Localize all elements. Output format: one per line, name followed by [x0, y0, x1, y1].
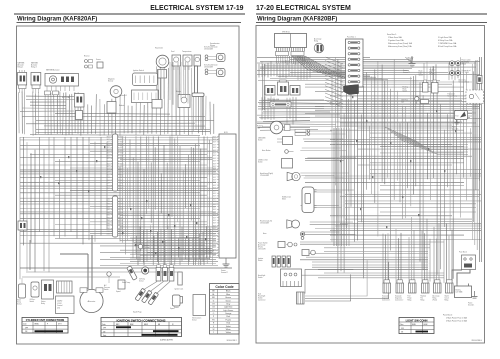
svg-text:BK/Y: BK/Y [213, 153, 216, 155]
svg-text:BK/Y: BK/Y [213, 244, 216, 246]
svg-text:LIGHT SW CONN: LIGHT SW CONN [406, 318, 428, 322]
svg-text:Relay: Relay [421, 299, 425, 301]
switch: brake light switch plug [419, 70, 429, 93]
svg-text:BK/Y: BK/Y [107, 150, 110, 152]
svg-text:W/BK: W/BK [106, 231, 110, 233]
component: regulator/rectifier [108, 77, 122, 97]
svg-text:BK/Y: BK/Y [213, 180, 216, 182]
svg-text:Fuse Box 2 :: Fuse Box 2 : [443, 315, 454, 317]
svg-text:BK/Y: BK/Y [213, 158, 216, 160]
svg-text:Red: Red [226, 323, 229, 325]
component: dark harness wrap below fuse box 1 [344, 85, 359, 95]
svg-text:BK/Y: BK/Y [107, 166, 110, 168]
wire bundle: left page middle verticals dense [120, 136, 212, 265]
svg-text:Semi-Sealed beam: Semi-Sealed beam [204, 65, 218, 67]
svg-text:ON: ON [401, 332, 403, 334]
svg-text:GY/Y: GY/Y [58, 324, 62, 326]
component: ignition coils trio [156, 265, 183, 291]
wire: left edge vertical bus pair right page [263, 64, 265, 110]
svg-text:BK/Y: BK/Y [213, 177, 216, 179]
label: right page drawing number [471, 340, 482, 342]
component: alternator [80, 288, 103, 313]
svg-text:BK/Y: BK/Y [213, 166, 216, 168]
ground: frame ground 3 [452, 120, 460, 130]
svg-text:6 Relay Fuse 20A: 6 Relay Fuse 20A [438, 39, 453, 42]
svg-text:Pink: Pink [226, 316, 230, 318]
svg-text:BK/Y: BK/Y [107, 147, 110, 149]
table: ignition switch connections [101, 318, 182, 338]
switch: 2WD/4WD select switch [258, 137, 293, 145]
svg-text:BK/Y: BK/Y [107, 155, 110, 157]
svg-text:2 Main Power Fuse 2 30A: 2 Main Power Fuse 2 30A [446, 320, 467, 323]
svg-text:Alternator: Alternator [88, 300, 96, 303]
wire bundle: left page upper horizontal jogs [20, 96, 214, 135]
svg-text:BK/Y: BK/Y [213, 188, 216, 190]
component: VFB fuse 40A flat box [270, 102, 291, 107]
component: fuse box 2 [459, 252, 476, 270]
svg-text:Color: Color [400, 324, 404, 326]
svg-text:BK/Y: BK/Y [107, 183, 110, 185]
svg-text:OFF: OFF [25, 327, 28, 329]
svg-text:Speed: Speed [170, 308, 175, 310]
ground: engine ground circle [138, 244, 149, 249]
svg-text:White: White [226, 328, 231, 331]
connector strip: junction box connector B [106, 196, 123, 237]
switch: 2/4WD LOCK switch [258, 159, 293, 169]
junction connector blobs left page upper [40, 146, 105, 192]
svg-text:Fuse Box 1 :: Fuse Box 1 : [387, 34, 398, 36]
svg-text:W/BK: W/BK [106, 228, 110, 230]
svg-text:BK/Y: BK/Y [107, 139, 110, 141]
svg-text:Speed: Speed [116, 291, 121, 293]
wire: right page far-right vertical bus [472, 57, 481, 262]
svg-text:BR/Y: BR/Y [116, 324, 120, 326]
svg-text:1 Main Power Fuse 1 30A: 1 Main Power Fuse 1 30A [446, 317, 467, 320]
svg-text:BK/Y: BK/Y [213, 139, 216, 141]
svg-text:Relay: Relay [408, 299, 412, 301]
svg-text:W/BK: W/BK [106, 234, 110, 236]
svg-text:2WD Fuse: 2WD Fuse [401, 100, 408, 102]
svg-text:BK/Y: BK/Y [107, 185, 110, 187]
svg-text:Wiring Diagram (KAF820AF): Wiring Diagram (KAF820AF) [17, 16, 97, 22]
svg-text:Kawasaki: Kawasaki [382, 295, 389, 297]
svg-text:Ignition Switch: Ignition Switch [133, 69, 144, 72]
svg-text:Light Green: Light Green [223, 309, 233, 312]
svg-text:BK/Y: BK/Y [120, 136, 123, 138]
sensor: water temperature sensor slanted plug [122, 266, 137, 284]
svg-text:BK/Y: BK/Y [213, 207, 216, 209]
left diagram frame [17, 26, 240, 344]
wire bundle: staircase diagonals [385, 127, 468, 155]
connector/relay: Radiator Fan Relay [421, 280, 430, 302]
junction connector blobs left page [122, 200, 206, 254]
svg-text:BK/Y: BK/Y [213, 223, 216, 225]
wire: alternator feed lines [30, 235, 92, 289]
svg-text:Pump: Pump [408, 297, 412, 299]
wire: battery cables [452, 262, 470, 284]
right page title underline [256, 21, 487, 23]
svg-text:Fan: Fan [421, 297, 424, 299]
svg-text:Relay: Relay [314, 40, 318, 42]
label: fuse box 1 legend column 1 [387, 34, 413, 48]
svg-text:BK/Y: BK/Y [120, 158, 123, 160]
connector/relay: Kawasaki Diagnostic Connector 2 [395, 280, 404, 302]
component: KFB/IMB shift actuator small [152, 100, 162, 109]
ground: frame ground 2 fan-in wires [405, 57, 413, 64]
svg-text:Color Code: Color Code [215, 285, 233, 289]
left page header rule [14, 13, 245, 15]
left page title underline [17, 21, 242, 23]
unit: VFB ECU box [275, 31, 307, 55]
svg-text:Relay: Relay [445, 299, 449, 301]
svg-text:BK/Y: BK/Y [213, 252, 216, 254]
connector strip: junction box connector A [107, 134, 124, 191]
wire bundle: right page long cross horizontals upper [257, 101, 480, 127]
svg-text:BK/Y: BK/Y [107, 172, 110, 174]
svg-text:Engine: Engine [145, 245, 150, 247]
svg-text:Fan: Fan [430, 72, 433, 74]
relay: accessory relay box 3 [290, 86, 300, 96]
svg-text:12V 120W: 12V 120W [462, 72, 470, 74]
svg-text:Sensor: Sensor [210, 45, 216, 47]
relay: accessory relay box 1 [265, 86, 275, 96]
svg-text:BK/Y: BK/Y [107, 164, 110, 166]
svg-text:BK/Y: BK/Y [213, 171, 216, 173]
svg-text:BK/Y: BK/Y [213, 228, 216, 230]
svg-text:BK/Y: BK/Y [213, 150, 216, 152]
svg-text:Fuel Level: Fuel Level [448, 94, 456, 96]
svg-text:BK/Y: BK/Y [213, 185, 216, 187]
table: color code [210, 284, 240, 335]
connector: accessory terminal rear [459, 76, 483, 84]
svg-text:BK/Y: BK/Y [213, 255, 216, 257]
svg-text:BL: BL [212, 294, 214, 296]
svg-text:OFF: OFF [103, 328, 106, 330]
svg-text:Wiring Diagram (KAF820BF): Wiring Diagram (KAF820BF) [257, 16, 337, 22]
connector/relay: Fuel Pump Relay [408, 280, 417, 302]
connector: actuator sub-connectors row [45, 91, 59, 95]
unit: 2/4WD LOCK Control Unit [56, 296, 75, 314]
svg-text:BK/Y: BK/Y [213, 242, 216, 244]
connector: sub headlight switch connector [258, 292, 304, 304]
svg-text:BK/Y: BK/Y [213, 250, 216, 252]
wire bundle: left page lower horizontal runs [130, 238, 218, 259]
meter: indicator lamp [194, 55, 201, 66]
ground: frame ground 1 [468, 291, 478, 306]
svg-text:12V 40/40W: 12V 40/40W [204, 49, 213, 51]
unit: vehicle-down sensor [192, 295, 206, 322]
svg-text:2/4WD LOCK: 2/4WD LOCK [258, 159, 269, 161]
component: handlebar junction bar [192, 93, 204, 96]
meter: fuel gauge [171, 51, 181, 70]
svg-text:BR/BL: BR/BL [35, 324, 40, 326]
svg-text:BK/Y: BK/Y [120, 183, 123, 185]
component: connector F-1 flat box [119, 90, 159, 103]
component: power switch accessory front [258, 241, 297, 250]
svg-text:Hourmeter: Hourmeter [155, 46, 163, 49]
svg-text:Black: Black [226, 291, 231, 293]
wire bundle: right page main mesh verticals [332, 57, 480, 278]
svg-text:BK/Y: BK/Y [120, 177, 123, 179]
svg-text:Violet: Violet [226, 325, 231, 328]
svg-text:Horn: Horn [263, 233, 267, 235]
svg-text:Sensor: Sensor [108, 79, 114, 82]
svg-text:BK/Y: BK/Y [120, 172, 123, 174]
svg-text:12V 40/40W: 12V 40/40W [260, 222, 269, 224]
component: 2WD fuse small [401, 100, 429, 104]
sensor: knock sensor [174, 297, 183, 310]
svg-text:Relay: Relay [433, 297, 437, 299]
svg-text:1 Main Fuse 30A: 1 Main Fuse 30A [388, 36, 402, 39]
svg-text:W/BK: W/BK [106, 204, 110, 206]
svg-text:BK/BL: BK/BL [412, 324, 416, 326]
svg-text:BK/Y: BK/Y [213, 142, 216, 144]
label: left page drawing number [227, 340, 238, 342]
svg-text:3 Accessory Fuse (Front) 10A: 3 Accessory Fuse (Front) 10A [388, 42, 413, 45]
svg-text:Vehicle-Down: Vehicle-Down [192, 318, 201, 320]
component: radiator fan motor [257, 121, 290, 134]
relay: KAF/IMB Actuator Relay 2 [31, 62, 41, 94]
svg-text:BK/Y: BK/Y [213, 169, 216, 171]
svg-text:W/BK: W/BK [106, 209, 110, 211]
svg-text:Fan: Fan [257, 128, 260, 130]
svg-text:VFB ECU: VFB ECU [282, 31, 290, 33]
svg-text:BK/Y: BK/Y [213, 239, 216, 241]
unit: fuel pump box [455, 111, 468, 120]
svg-text:W/BK: W/BK [106, 220, 110, 222]
svg-text:WG14011BE 4: WG14011BE 4 [471, 340, 482, 342]
wire bundle: right page bottom vertical drops [383, 217, 452, 284]
component: power switch accessory rear socket row 1 [450, 58, 471, 65]
sensor: small sensor box x97 [96, 58, 103, 68]
svg-text:BK/Y: BK/Y [120, 161, 123, 163]
relay: accessory relay [314, 37, 324, 53]
svg-text:BL/BK: BL/BK [424, 324, 428, 326]
svg-text:W/BK: W/BK [106, 207, 110, 209]
sensor: vehicle speed sensor [170, 295, 180, 310]
svg-text:Gray: Gray [226, 302, 230, 305]
table: lighting connections right page [399, 318, 434, 334]
svg-text:BK/Y: BK/Y [213, 155, 216, 157]
svg-text:W/BK: W/BK [106, 223, 110, 225]
wire bundle: upper-left box feeds [257, 96, 340, 130]
svg-text:Oil/Temp: Oil/Temp [139, 279, 145, 281]
svg-text:OFF: OFF [401, 328, 404, 330]
svg-text:W/BK: W/BK [106, 215, 110, 217]
component: starter motor box [176, 90, 190, 108]
svg-text:BK/Y: BK/Y [213, 217, 216, 219]
unit: head light switch box [258, 269, 302, 287]
sensor: crankshaft sensor dark [139, 267, 149, 283]
switch: horn button [262, 149, 294, 153]
svg-text:Fuse Box 2: Fuse Box 2 [459, 252, 467, 254]
label: speedometer sensor text [210, 42, 220, 47]
svg-text:W/BK: W/BK [106, 201, 110, 203]
svg-text:W/BK: W/BK [106, 212, 110, 214]
svg-text:Ground 2: Ground 2 [221, 272, 228, 274]
svg-text:(KAF820 ADF8F): (KAF820 ADF8F) [160, 339, 173, 342]
svg-text:BK/Y: BK/Y [120, 155, 123, 157]
svg-text:WG14011BF 1: WG14011BF 1 [227, 340, 238, 342]
wire bundle: ECU fanout and upper-left verticals [259, 56, 388, 80]
right page header rule [256, 13, 487, 15]
switch: radiator fan breaker plug [430, 69, 439, 94]
svg-text:BK/Y: BK/Y [213, 234, 216, 236]
component: accessory socket assembly 2 [302, 250, 315, 256]
component: B+/C LOAD actuator box [62, 94, 84, 108]
label: fuse box 1 legend column 2 [438, 36, 457, 48]
svg-text:BK/Y: BK/Y [120, 174, 123, 176]
svg-text:7 2WD/4WD Fuse 10A: 7 2WD/4WD Fuse 10A [438, 42, 457, 45]
svg-text:Yellow: Yellow [225, 332, 231, 334]
svg-text:BR/W: BR/W [144, 324, 149, 326]
relay: VFB main relay box 2 [278, 80, 289, 95]
right diagram frame [256, 26, 485, 344]
component: battery 12V 28Ah [455, 284, 472, 298]
svg-text:BK/Y: BK/Y [213, 247, 216, 249]
connector: ignition switch connector bars [258, 256, 290, 267]
junction connector blobs right page [340, 96, 456, 228]
sensor: water temperature sensor [17, 278, 26, 306]
svg-text:BK/Y: BK/Y [120, 147, 123, 149]
svg-text:BK/Y: BK/Y [213, 182, 216, 184]
svg-text:Kawasaki: Kawasaki [395, 295, 402, 297]
svg-text:BK/Y: BK/Y [213, 225, 216, 227]
svg-text:BK/Y: BK/Y [213, 201, 216, 203]
svg-text:BK/Y: BK/Y [213, 204, 216, 206]
svg-text:BK/Y: BK/Y [107, 188, 110, 190]
relay: KAF/IMB Actuator Relay 1 [18, 62, 27, 94]
svg-text:BK/Y: BK/Y [213, 198, 216, 200]
svg-text:Spark Plugs: Spark Plugs [133, 312, 142, 314]
component: small box below B+/C LOAD [76, 111, 83, 120]
svg-text:BK/Y: BK/Y [107, 177, 110, 179]
svg-text:12V 120W: 12V 120W [258, 249, 266, 251]
component: fuse box 1 [346, 37, 364, 87]
svg-text:Temperature: Temperature [182, 50, 192, 53]
switch: parking brake switch [403, 86, 419, 105]
svg-text:BK/Y: BK/Y [120, 180, 123, 182]
wire: bottom long horizontal runs left page [20, 268, 232, 277]
connector: knock sensor connector vertical [178, 272, 182, 285]
svg-text:BK/Y: BK/Y [213, 220, 216, 222]
svg-text:BK/Y: BK/Y [120, 166, 123, 168]
connector: small accessory connectors above switch cluster [295, 129, 310, 135]
wire: speedometer cable bar [195, 66, 198, 93]
wire bundle: left page left-side verticals [20, 137, 107, 279]
svg-text:W/BK: W/BK [106, 198, 110, 200]
svg-text:CYLINDER UNIT CONNECTIONS: CYLINDER UNIT CONNECTIONS [26, 319, 65, 322]
component: spark plugs slanted trio [133, 288, 159, 313]
wire bundle: left page top vertical drops [19, 62, 214, 136]
svg-text:BK/Y: BK/Y [213, 231, 216, 233]
connector: 2/4WD control connector [57, 281, 73, 293]
svg-text:8 Fuel Pump Fuse 10A: 8 Fuel Pump Fuse 10A [438, 45, 457, 48]
svg-text:12V 40/40W: 12V 40/40W [260, 175, 269, 177]
svg-text:Relay 2: Relay 2 [31, 67, 37, 69]
svg-text:Temp.: Temp. [17, 302, 22, 304]
table: cylinder unit meter connections [22, 318, 68, 334]
label: VFB fuse 40A text [269, 98, 280, 101]
svg-text:2 Ignition Fuse 20A: 2 Ignition Fuse 20A [388, 39, 404, 42]
svg-text:BK/Y: BK/Y [213, 161, 216, 163]
svg-text:Unit: Unit [57, 306, 61, 309]
svg-text:Ground 2: Ground 2 [403, 72, 410, 74]
svg-text:Relay: Relay [41, 303, 45, 305]
wire bundle: mid vertical bundle right page [334, 128, 349, 246]
wire bundle: right page upper bus horizontals [257, 57, 480, 80]
svg-text:BK/Y: BK/Y [213, 174, 216, 176]
unit: multifunction meter [282, 187, 317, 213]
svg-text:BK/Y: BK/Y [213, 147, 216, 149]
sensor: speed sensor bottom small [116, 280, 125, 293]
unit: fuel level sensor dashed box [448, 90, 484, 104]
label: fuse box 2 legend [443, 315, 467, 323]
wire bundle: right page bottom horizontals [300, 242, 444, 301]
component: combination switch rounded box [133, 69, 158, 86]
svg-text:2WD/4WD: 2WD/4WD [258, 137, 266, 139]
wire bundle: left column feeds to mesh [300, 131, 356, 235]
svg-text:BK/Y: BK/Y [107, 153, 110, 155]
svg-text:BK/Y: BK/Y [213, 163, 216, 165]
svg-text:12V 40/40W: 12V 40/40W [204, 67, 213, 69]
svg-text:P: P [47, 324, 48, 326]
svg-text:BK/Y: BK/Y [213, 215, 216, 217]
svg-text:Orange: Orange [225, 312, 231, 315]
wire: coil to spark plug diagonals [143, 282, 170, 295]
svg-text:BK/Y: BK/Y [213, 190, 216, 192]
svg-text:Fuse Box 1: Fuse Box 1 [347, 37, 356, 39]
svg-text:Sub: Sub [258, 293, 261, 295]
svg-text:Green: Green [226, 299, 231, 302]
svg-text:KAF/IMB Actuator: KAF/IMB Actuator [46, 69, 60, 72]
svg-text:Starter: Starter [176, 90, 182, 93]
meter: temperature gauge [182, 50, 192, 70]
sensor: oil pressure switch [30, 282, 40, 303]
svg-text:BK/Y: BK/Y [120, 142, 123, 144]
unit: ECU tall box [213, 132, 236, 258]
lamp: head lamp right [260, 172, 300, 181]
svg-text:Blue: Blue [226, 294, 230, 296]
svg-text:BK/Y: BK/Y [120, 185, 123, 187]
svg-text:BK/Y: BK/Y [107, 145, 110, 147]
ground: frame ground 2 left page [221, 258, 230, 274]
svg-text:BK/Y: BK/Y [213, 209, 216, 211]
svg-text:ON: ON [25, 331, 27, 333]
svg-text:W/BK: W/BK [106, 226, 110, 228]
svg-text:BK/Y: BK/Y [213, 136, 216, 138]
svg-text:BK/Y: BK/Y [213, 212, 216, 214]
svg-text:BK/Y: BK/Y [107, 161, 110, 163]
svg-text:Frame: Frame [221, 270, 226, 272]
component: power switch accessory rear socket row 2 [450, 69, 471, 75]
svg-text:Brown: Brown [226, 296, 231, 299]
lamp: head lamp left [260, 219, 300, 228]
unit: KAF/IMB Actuator assembly [45, 69, 79, 92]
wire bundle: left page middle horizontal bus [20, 138, 218, 266]
svg-text:BK/Y: BK/Y [213, 144, 216, 146]
component: radiator box below regulator [107, 102, 125, 114]
svg-text:BK/Y: BK/Y [213, 193, 216, 195]
svg-text:ON: ON [103, 331, 105, 333]
component: small unit left edge [18, 221, 27, 230]
svg-text:BK/Y: BK/Y [107, 174, 110, 176]
svg-text:BK/Y: BK/Y [120, 164, 123, 166]
svg-text:BK/Y: BK/Y [107, 158, 110, 160]
svg-text:BK/Y: BK/Y [120, 150, 123, 152]
lamp: headlight left (Semi-Sealed beam) [204, 65, 225, 77]
ground: frame ground 2 right page [403, 56, 416, 74]
